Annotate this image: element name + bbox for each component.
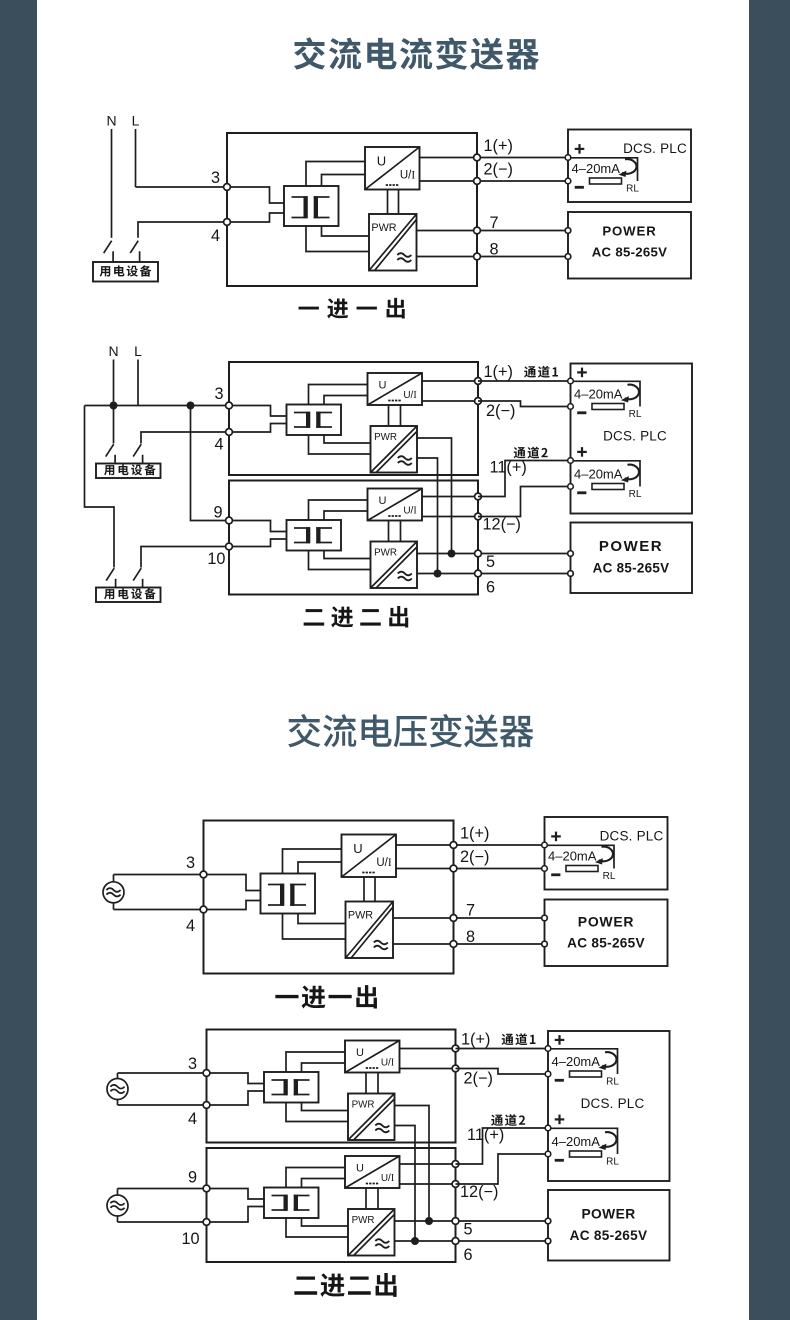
terminal + (DCS) [545,1046,551,1052]
plus sign [577,368,587,378]
label 一进一出 (one in one out) [275,985,377,1008]
svg-text:PWR: PWR [374,548,397,559]
terminal POWER L1 [545,1218,551,1224]
terminal 8 [450,941,457,948]
svg-text:7: 7 [466,902,475,920]
svg-text:2(−): 2(−) [486,402,515,420]
current loop arrow [595,847,613,865]
wire loop 4-20mA [548,1128,618,1154]
wire transformer to U upper [286,1168,345,1188]
wire loop 4-20mA [548,1049,618,1074]
U/I converter module T4-ch2 [345,1156,400,1188]
wire 11 to DCS [456,1128,549,1164]
wire loop 4-20mA [571,461,641,487]
junction N [110,402,118,410]
wire neutral drop [85,406,115,568]
svg-text:AC 85-265V: AC 85-265V [592,244,668,259]
wire input 9 jog [207,1189,265,1200]
wire input 9 jog [229,521,287,532]
wire U to PWR left [365,1073,367,1094]
wire source1 top stub [117,1073,119,1079]
terminal 4 [226,429,233,436]
svg-text:4–20mA: 4–20mA [574,467,623,482]
switch contact 1b [133,444,142,463]
junction on wire 6 [434,570,442,578]
wire source2 bottom stub [117,1216,119,1222]
wire U to PWR right [377,1188,379,1209]
svg-text:U: U [356,1163,364,1175]
terminal 3 [200,871,207,878]
wire to DCS + [481,157,568,159]
svg-text:1(+): 1(+) [461,1031,490,1049]
wire transformer to U upper [286,1052,345,1072]
POWER box [571,523,693,594]
wire 1 to DCS [456,1048,549,1050]
terminal - (DCS) [545,1151,551,1157]
label 通道2 [514,447,548,459]
svg-text:2(−): 2(−) [460,848,489,866]
junction L branch [187,402,195,410]
wire output 11 [422,496,478,498]
wire to POWER 8 [458,943,545,945]
transmitter channel2 box T4 [207,1148,456,1262]
svg-text:7: 7 [489,214,498,232]
wire 2 to DCS [456,1069,549,1075]
terminal POWER L1 [542,915,548,921]
terminal 4 [224,219,231,226]
wire transformer to U upper [309,500,368,520]
power module PWR T3-ch1 [371,426,418,473]
plus sign [555,1115,565,1125]
terminal + (DCS) [568,378,574,384]
label load 用电设备 [100,265,152,276]
wire 6 [417,573,571,575]
svg-text:U: U [353,841,362,856]
wire source top stub [113,875,115,883]
current loop arrow [618,159,636,177]
svg-text:U/I: U/I [376,857,392,869]
wire transformer to PWR upper [324,435,371,443]
svg-text:RL: RL [629,489,642,500]
wire output 2 [396,868,454,870]
svg-text:PWR: PWR [348,910,373,922]
wire input 4 jog [229,424,287,433]
title: AC current transmitter [294,37,539,70]
power module PWR T1 [369,214,417,271]
power module PWR T4-ch2 [348,1209,395,1256]
terminal - (DCS) [568,484,574,490]
svg-text:11(+): 11(+) [467,1126,504,1144]
svg-text:3: 3 [186,854,195,872]
terminal POWER L2 [565,254,571,260]
wire transformer to U upper [309,385,368,405]
POWER box [568,212,691,279]
transformer T3-ch2 [287,520,342,551]
label 通道2 [491,1114,525,1126]
wire 6 [395,1240,549,1242]
wire loop 4-20mA [545,845,615,868]
svg-text:4–20mA: 4–20mA [548,849,597,864]
terminal 5 [475,550,482,557]
terminal 1 [475,378,482,385]
switch contact 1a [106,444,115,463]
terminal 1 [452,1045,459,1052]
wire input 3 jog [227,187,284,203]
terminal 6 [452,1238,459,1245]
terminal - (DCS) [565,178,571,184]
svg-text:4–20mA: 4–20mA [552,1134,601,1149]
load box [93,262,158,282]
label 通道1 [502,1033,536,1045]
transformer T4-ch1 [264,1072,319,1103]
svg-text:U: U [356,1047,364,1059]
svg-text:U: U [377,154,386,169]
terminal 1 [474,154,481,161]
resistor RL [592,484,624,490]
load box 2 [96,588,161,603]
junction on wire 6 [411,1237,419,1245]
svg-text:DCS. PLC: DCS. PLC [603,429,667,444]
terminal 2 [450,865,457,872]
terminal 10 [203,1219,210,1226]
wire output 11 [400,1163,456,1165]
plus sign [555,1035,565,1045]
wire 5 [395,1220,549,1222]
current loop arrow [621,385,639,403]
wire 10 [141,547,229,568]
power module PWR T3-ch2 [371,542,418,589]
wire transformer to PWR lower [309,435,371,454]
svg-text:4: 4 [188,1110,197,1128]
svg-text:DCS. PLC: DCS. PLC [581,1096,645,1111]
wire 4 [141,432,229,444]
wire branch to 9 [191,406,230,521]
junction on wire 5 [425,1217,433,1225]
junction on wire 5 [448,550,456,558]
current loop arrow [598,1132,616,1150]
wire 12 to DCS [478,487,571,517]
terminal 4 [200,906,207,913]
DCS PLC box [571,364,693,514]
wire transformer to U upper [283,849,342,874]
terminal - (DCS) [542,866,548,872]
svg-text:10: 10 [207,550,225,568]
switch contact 2a [106,568,115,587]
svg-text:RL: RL [606,1076,619,1087]
power module PWR T4-ch1 [348,1094,395,1141]
wire source2 top stub [117,1189,119,1196]
wire input 10 jog [229,539,287,547]
wire PWR1 to bus 6 [417,458,438,574]
wire input 4 jog [204,901,261,910]
wire source bottom stub [113,903,115,910]
wire transformer to U lower [302,1179,346,1188]
minus sign [577,411,586,414]
terminal 4 [203,1102,210,1109]
wire 3 [136,186,228,188]
wire to DCS - [458,868,545,870]
wire output 1 [400,1048,456,1050]
svg-text:RL: RL [603,871,616,882]
wire output 2 [400,1068,456,1070]
wire 4 [118,1104,207,1106]
svg-text:U: U [379,495,387,507]
svg-text:3: 3 [214,385,223,403]
svg-text:6: 6 [486,579,495,597]
label 一进一出 (one in one out) [299,298,405,319]
wire output 2 [420,180,478,182]
terminal 3 [224,184,231,191]
transmitter channel1 box T4 [207,1030,456,1143]
wire L line [137,360,139,406]
wire 11 to DCS [478,461,571,497]
svg-text:3: 3 [188,1055,197,1073]
power module PWR T2 [346,902,394,959]
wire output 12 [400,1183,456,1185]
U/I converter module T4-ch1 [345,1041,400,1073]
switch contact L [130,241,139,262]
svg-text:N: N [108,343,118,359]
svg-text:AC 85-265V: AC 85-265V [593,561,670,576]
transmitter channel1 box T3 [229,362,478,475]
wire PWR1 to bus 6 [395,1126,416,1242]
wire transformer to U lower [302,1063,346,1072]
terminal - (DCS) [568,404,574,410]
current loop arrow [598,1052,616,1070]
wire input 4 jog [227,213,284,222]
wire transformer to PWR upper [322,226,370,236]
svg-text:10: 10 [181,1230,199,1248]
wire transformer to PWR upper [302,1103,349,1111]
wire 4 [114,909,204,911]
svg-text:2(−): 2(−) [464,1070,493,1088]
svg-text:12(−): 12(−) [460,1183,498,1201]
svg-text:U/I: U/I [400,170,416,182]
wire input 3 jog [207,1073,265,1084]
wire U to PWR left [365,1188,367,1209]
svg-text:5: 5 [463,1221,472,1239]
svg-text:4–20mA: 4–20mA [572,161,621,176]
resistor RL [570,1071,602,1077]
svg-text:4–20mA: 4–20mA [574,387,623,402]
minus sign [575,186,584,189]
wire transformer to PWR upper [324,551,371,559]
terminal 9 [226,517,233,524]
wire U to PWR right [374,877,376,902]
wire to DCS - [481,180,568,182]
terminal + (DCS) [568,458,574,464]
wire to POWER 7 [481,230,568,232]
svg-text:PWR: PWR [371,222,396,234]
svg-text:11(+): 11(+) [490,459,527,477]
minus sign [555,1079,564,1082]
terminal 2 [452,1065,459,1072]
svg-text:U/I: U/I [381,1058,394,1069]
wire 2 to DCS [478,401,571,407]
svg-text:1(+): 1(+) [484,363,513,381]
svg-text:PWR: PWR [352,1215,375,1226]
terminal 12 [452,1181,459,1188]
POWER box [548,1190,670,1261]
svg-text:U/I: U/I [403,506,416,517]
terminal 11 [452,1161,459,1168]
DCS PLC box [568,130,691,203]
svg-text:PWR: PWR [352,1100,375,1111]
wire 4 [138,222,227,238]
svg-text:N: N [106,113,116,129]
terminal 5 [452,1218,459,1225]
svg-text:9: 9 [213,504,222,522]
svg-text:RL: RL [606,1156,619,1167]
resistor RL [592,404,624,410]
wire transformer to PWR lower [306,226,369,252]
DCS PLC box [545,817,668,890]
transmitter outer box T1 [227,133,477,286]
wire output 1 [422,380,478,382]
terminal 10 [226,543,233,550]
transformer T3-ch1 [287,405,342,436]
wire input 3 jog [229,406,287,417]
wire 12 to DCS [456,1154,549,1184]
wire 5 [417,553,571,555]
wire transformer to U lower [324,511,368,520]
wire U to PWR left [388,405,390,426]
terminal 2 [474,178,481,185]
wire 3 [114,874,204,876]
resistor RL [570,1151,602,1157]
wire transformer to U lower [324,396,368,405]
wire transformer to U upper [306,162,365,187]
terminal POWER L2 [545,1238,551,1244]
wire output 7 [393,917,454,919]
wire 10 [118,1221,207,1223]
wire N line [111,129,113,238]
svg-text:POWER: POWER [602,224,656,239]
wire transformer to U lower [322,175,366,187]
terminal + (DCS) [542,842,548,848]
terminal 3 [203,1070,210,1077]
terminal POWER L2 [568,571,574,577]
svg-text:3: 3 [211,169,220,187]
wire loop 4-20mA [571,381,641,406]
AC source G1 [103,882,124,903]
wire 9 [118,1188,207,1190]
svg-text:4: 4 [214,436,223,454]
left sidebar [0,0,37,1320]
plus sign [551,832,561,842]
title: AC voltage transmitter [288,714,533,747]
wire transformer to U lower [298,862,342,874]
terminal - (DCS) [545,1071,551,1077]
svg-text:DCS. PLC: DCS. PLC [623,141,687,156]
wire output 12 [422,516,478,518]
wire transformer to PWR lower [283,914,346,940]
transformer T1 [284,186,339,226]
wire 3 bus [85,405,230,407]
POWER box [545,900,668,967]
wire output 1 [396,844,454,846]
wire transformer to PWR lower [286,1218,348,1237]
svg-text:1(+): 1(+) [484,137,513,155]
wire N line [113,360,115,444]
terminal POWER L1 [565,228,571,234]
wire U to PWR left [363,877,365,902]
AC source G3 [107,1195,128,1216]
svg-text:POWER: POWER [599,538,663,555]
wire input 4 jog [207,1091,265,1105]
svg-text:U/I: U/I [381,1173,394,1184]
terminal 7 [474,227,481,234]
label load1 用电设备 [104,464,156,475]
wire U to PWR right [400,521,402,542]
terminal + (DCS) [565,155,571,161]
U/I converter module T1 [365,147,420,190]
terminal 8 [474,253,481,260]
terminal 11 [475,493,482,500]
label 二进二出 (two in two out) [304,606,409,628]
wire L line [135,129,137,187]
terminal 1 [450,842,457,849]
label 通道1 [524,366,558,378]
U/I converter module T3-ch2 [368,489,423,521]
wire U to PWR right [398,190,400,215]
wire transformer to PWR upper [302,1218,349,1226]
minus sign [555,1159,564,1162]
terminal POWER L1 [568,551,574,557]
switch contact 2b [133,568,142,587]
load box 1 [96,464,161,479]
wire output 8 [417,256,478,258]
wire PWR1 to bus 5 [395,1106,430,1222]
svg-text:5: 5 [486,553,495,571]
svg-text:L: L [132,113,140,129]
terminal 12 [475,513,482,520]
plus sign [575,144,585,154]
resistor RL [566,866,598,872]
AC source G2 [107,1079,128,1100]
terminal POWER L2 [542,941,548,947]
DCS PLC box [548,1031,670,1181]
svg-text:AC 85-265V: AC 85-265V [567,935,645,950]
minus sign [577,491,586,494]
svg-text:4: 4 [186,917,195,935]
svg-text:9: 9 [188,1169,197,1187]
wire transformer to PWR lower [309,551,371,570]
wire transformer to PWR lower [286,1103,348,1122]
wire U to PWR right [400,405,402,426]
wire 3 [118,1072,207,1074]
wire output 7 [417,230,478,232]
U/I converter module T2 [342,835,397,878]
svg-text:6: 6 [463,1246,472,1264]
wire output 8 [393,943,454,945]
wire to POWER 8 [481,256,568,258]
svg-text:2(−): 2(−) [484,161,513,179]
terminal 7 [450,915,457,922]
svg-text:RL: RL [629,409,642,420]
terminal 9 [203,1185,210,1192]
wire input 3 jog [204,875,261,891]
wire output 1 [420,157,478,159]
terminal 6 [475,570,482,577]
transmitter outer box T2 [204,821,454,974]
wire U to PWR right [377,1073,379,1094]
svg-text:L: L [134,343,142,359]
label load2 用电设备 [104,588,156,599]
svg-text:4–20mA: 4–20mA [552,1054,601,1069]
wire transformer to PWR upper [298,914,346,924]
wire PWR1 to bus 5 [417,438,452,554]
